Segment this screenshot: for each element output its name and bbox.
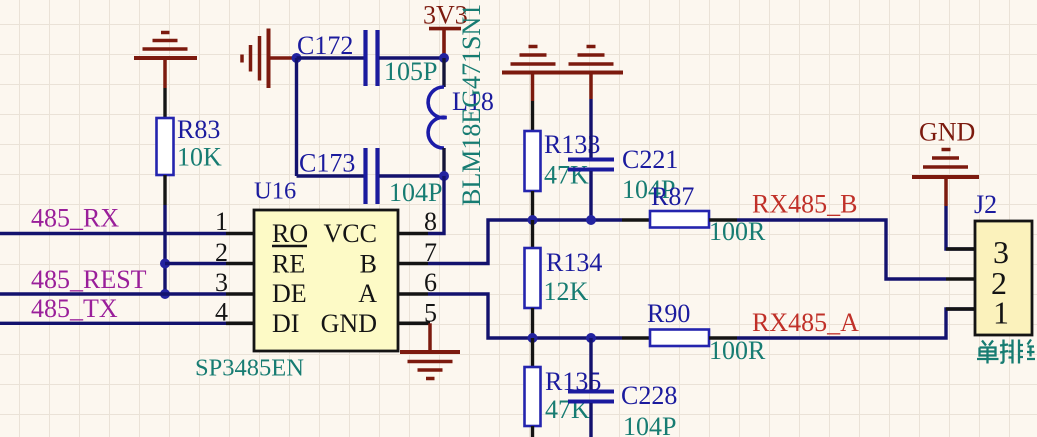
resistor R135 — [525, 338, 602, 437]
op-amp / transceiver U16 — [195, 178, 398, 382]
wire GND to J2 pin3 — [946, 206, 975, 249]
svg-text:VCC: VCC — [324, 219, 377, 248]
svg-text:100R: 100R — [709, 336, 766, 365]
svg-text:J2: J2 — [974, 190, 997, 219]
wire R83 to DE row — [163, 205, 166, 294]
svg-text:R87: R87 — [651, 182, 694, 211]
capacitor C221 — [568, 99, 678, 220]
svg-text:47K: 47K — [545, 395, 590, 424]
pin 3 (DE) — [215, 268, 307, 308]
svg-text:R134: R134 — [546, 248, 602, 277]
svg-text:485_TX: 485_TX — [31, 294, 118, 323]
resistor R133 — [525, 101, 601, 220]
ground GND2 (earth, rotated, near C172) — [242, 29, 294, 89]
ground GND3 (below U16 pin 5) — [400, 323, 460, 378]
wire 485_TX — [0, 322, 226, 325]
resistor R90 — [622, 299, 766, 365]
svg-text:B: B — [360, 250, 377, 279]
pin 7 (B) — [360, 238, 437, 279]
svg-text:3: 3 — [215, 268, 228, 297]
junction R133 / B row — [528, 215, 538, 225]
pin 1 (RO) — [215, 207, 308, 248]
svg-text:104P: 104P — [623, 412, 676, 437]
svg-text:10K: 10K — [177, 143, 222, 172]
junction at RE row — [160, 259, 170, 269]
svg-text:C228: C228 — [621, 381, 677, 410]
wire pin7 B to net row — [428, 220, 622, 264]
node L18 bottom / C173 — [439, 171, 449, 181]
wire to C173 — [297, 174, 365, 177]
node 3V3 — [439, 53, 449, 63]
capacitor C173 — [299, 148, 442, 207]
pin 3 of J2 — [946, 234, 1009, 270]
ground GND1 (earth, top-left) — [134, 33, 197, 89]
capacitor C172 — [297, 30, 437, 86]
svg-text:485_RX: 485_RX — [31, 204, 119, 233]
wire C172 to 3V3 node — [379, 56, 444, 59]
pin 2 of J2 — [946, 265, 1007, 301]
pin 5 (GND) — [321, 299, 437, 339]
wire RE stub from R83 column — [165, 262, 226, 265]
svg-text:RO: RO — [272, 219, 308, 248]
svg-text:12K: 12K — [544, 277, 589, 306]
junction R134 / A row — [528, 333, 538, 343]
wire pin6 A to net row — [428, 294, 622, 338]
svg-text:U16: U16 — [254, 178, 296, 205]
svg-text:RX485_B: RX485_B — [752, 190, 857, 219]
svg-text:SP3485EN: SP3485EN — [195, 355, 304, 382]
svg-text:105P: 105P — [384, 57, 437, 86]
svg-text:DI: DI — [272, 309, 299, 338]
svg-text:R90: R90 — [647, 299, 690, 328]
svg-text:485_REST: 485_REST — [31, 265, 147, 294]
junction C228 / A row — [586, 333, 596, 343]
ground GND4 (dual earth above R133/C221) — [502, 47, 623, 102]
svg-text:BLM18EG471SN1: BLM18EG471SN1 — [457, 4, 486, 206]
connector J2 — [974, 190, 1037, 364]
svg-text:A: A — [358, 279, 377, 308]
inductor L18 — [428, 58, 494, 176]
svg-text:RE: RE — [272, 250, 305, 279]
wire 485_REST — [0, 292, 226, 295]
svg-text:1: 1 — [215, 207, 228, 236]
pin 6 (A) — [358, 268, 437, 308]
capacitor C228 — [568, 338, 677, 437]
svg-text:2: 2 — [215, 238, 228, 267]
svg-text:C172: C172 — [297, 31, 353, 60]
pin 1 of J2 — [946, 295, 1009, 331]
svg-text:C173: C173 — [299, 149, 355, 178]
svg-text:5: 5 — [424, 299, 437, 328]
svg-text:C221: C221 — [622, 145, 678, 174]
resistor R134 — [525, 220, 603, 338]
power port GND (near J2) — [912, 118, 979, 207]
svg-text:GND: GND — [919, 118, 975, 147]
power port 3V3 — [423, 1, 468, 56]
wire L18 to pin 8 — [428, 176, 444, 234]
resistor R87 — [622, 182, 766, 246]
wire C173 to L18 node — [379, 174, 444, 177]
wire RX485_A to J2 pin1 — [737, 309, 975, 338]
pin 4 (DI) — [215, 298, 299, 339]
pin 2 (RE, active low) — [215, 238, 307, 279]
svg-text:GND: GND — [321, 309, 377, 338]
junction C221 / B row — [586, 215, 596, 225]
wire RX485_B to J2 pin2 — [737, 220, 946, 279]
wire node to C172 — [297, 56, 365, 59]
svg-text:104P: 104P — [389, 178, 442, 207]
junction at DE row — [160, 289, 170, 299]
svg-text:DE: DE — [272, 279, 307, 308]
svg-text:RX485_A: RX485_A — [752, 308, 859, 337]
svg-text:47K: 47K — [544, 161, 589, 190]
resistor R83 — [157, 88, 223, 205]
pin 8 (VCC) — [324, 207, 437, 248]
svg-text:4: 4 — [215, 298, 228, 327]
node at C172 left — [292, 53, 302, 63]
svg-text:R83: R83 — [177, 115, 220, 144]
svg-text:1: 1 — [993, 295, 1009, 331]
wire 485_RX — [0, 232, 226, 235]
wire left vertical C172-C173 — [295, 58, 298, 176]
svg-text:8: 8 — [424, 207, 437, 236]
